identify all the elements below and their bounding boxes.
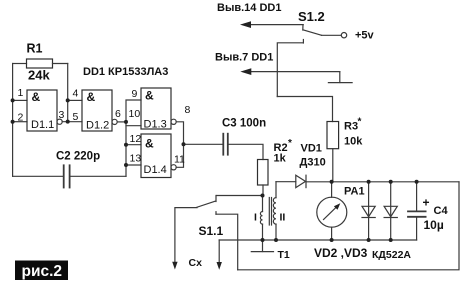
wire: S1.1 common to probe arrow [175, 208, 197, 263]
gate D1.4 [141, 134, 171, 178]
svg-text:4: 4 [73, 88, 79, 100]
diode VD3 [390, 182, 392, 240]
switch S1.2 arm [303, 30, 322, 36]
svg-text:24k: 24k [28, 68, 50, 83]
wire: pin 10 [126, 125, 141, 127]
svg-text:*: * [358, 117, 362, 128]
svg-text:D1.2: D1.2 [86, 120, 109, 132]
svg-text:+5v: +5v [355, 30, 375, 42]
svg-text:D1.4: D1.4 [144, 164, 167, 176]
junction node: C4 top [415, 180, 419, 184]
junction node: R3 / PA1 top rail [330, 180, 334, 184]
figure label ris.2 [15, 261, 68, 281]
capacitor C3 [222, 134, 224, 155]
wire: S1.1 top line to transformer [216, 195, 262, 197]
svg-text:DD1 КР1533ЛА3: DD1 КР1533ЛА3 [83, 66, 168, 78]
svg-text:5: 5 [73, 111, 79, 123]
svg-text:R1: R1 [27, 42, 43, 56]
transformer T1 core [268, 198, 270, 226]
svg-text:C3 100n: C3 100n [222, 118, 266, 130]
chassis symbol T1 [262, 240, 264, 252]
wire: Vyv.14 line to S1.2 [249, 24, 303, 26]
wire: D1.3 output to junction [176, 122, 183, 145]
resistor R1 [27, 59, 53, 68]
junction node: pin 13 [124, 163, 128, 167]
svg-text:II: II [280, 212, 286, 224]
switch S1.1 contact 2 tick [215, 212, 217, 215]
wire: inner bottom rail [219, 239, 416, 241]
arrow Vyv.14 [240, 21, 251, 75]
svg-text:рис.2: рис.2 [22, 263, 63, 280]
switch S1.1 contact 1 tick [215, 196, 217, 202]
svg-text:8: 8 [185, 104, 191, 116]
svg-text:11: 11 [174, 154, 185, 166]
ground symbol pin7 [339, 72, 341, 83]
svg-text:I: I [254, 212, 257, 224]
svg-text:S1.1: S1.1 [199, 224, 224, 238]
svg-text:C2 220p: C2 220p [56, 151, 100, 163]
svg-text:3: 3 [59, 109, 65, 121]
wire: S1.1 contact2 to bottom outer rail [216, 214, 238, 270]
svg-text:S1.2: S1.2 [298, 9, 325, 24]
svg-text:&: & [32, 90, 41, 104]
junction node: gate outputs to C3 [182, 142, 186, 146]
wire: pin 12 [126, 144, 141, 146]
junction node: PA1 bottom rail [330, 238, 334, 242]
junction node: pin 1 / left rail [11, 98, 15, 102]
svg-text:D1.3: D1.3 [144, 119, 167, 131]
svg-text:C4: C4 [434, 205, 449, 217]
capacitor C4 [416, 182, 418, 211]
wire: secondary to VD1 anode [276, 181, 296, 183]
svg-text:КД522А: КД522А [372, 249, 411, 261]
junction node: R2 / T1 primary top [261, 194, 265, 198]
ammeter PA1 [331, 182, 333, 198]
wire: D1.3/D1.4 input rail [126, 100, 141, 176]
svg-text:10: 10 [129, 108, 141, 120]
svg-text:13: 13 [130, 153, 142, 165]
terminal circle +5v [341, 33, 346, 38]
arrow Vyv.7 [240, 68, 251, 75]
wire: left rail from R1 left down to C2 [12, 64, 14, 177]
wire: R1 left horizontal [13, 63, 27, 65]
wire: D1.2 output to input rail [117, 121, 126, 123]
wire: Vyv.7 line [250, 71, 340, 73]
svg-text:R3: R3 [344, 121, 358, 133]
junction node: D1.2 output / input rail [124, 120, 128, 124]
resistor R2 [258, 160, 269, 186]
diode VD2 [368, 182, 370, 240]
junction node: VD3 top [389, 180, 393, 184]
wire: top rail VD1 to right frame [306, 181, 459, 183]
junction node: VD2 top [367, 180, 371, 184]
probe arrow 1 Cx [172, 262, 177, 270]
junction node: pin 12 [124, 143, 128, 147]
gate D1.2 [82, 90, 112, 131]
resistor R3 [327, 122, 339, 149]
wire: C2 right to input rail [71, 175, 126, 177]
switch S1.1 arm [197, 201, 215, 207]
junction node: T1 primary bottom [261, 238, 265, 242]
svg-text:&: & [145, 137, 154, 151]
junction node: VD2 bottom [367, 238, 371, 242]
capacitor C2 [63, 165, 65, 187]
wire: R3 bottom to rail [332, 149, 334, 182]
wire: pin 4 [68, 99, 82, 101]
wire: down to R3 [277, 97, 332, 122]
probe arrow 2 Cx [218, 240, 220, 263]
svg-text:1k: 1k [274, 153, 287, 165]
svg-text:D1.1: D1.1 [31, 119, 54, 131]
wire: junction to C3 [184, 143, 223, 145]
switch S1.2 contact 1 tick [302, 25, 304, 30]
wire: pin 2 [13, 121, 27, 123]
svg-text:&: & [87, 90, 96, 104]
svg-text:Выв.7 DD1: Выв.7 DD1 [215, 52, 273, 64]
wire: pin 13 [126, 164, 141, 166]
switch S1.2 contact 2 tick [302, 40, 304, 44]
svg-text:VD1: VD1 [301, 143, 322, 155]
svg-text:Cx: Cx [189, 257, 203, 269]
svg-text:+: + [423, 196, 430, 210]
svg-text:Д310: Д310 [300, 157, 326, 169]
junction node: T1 secondary bottom [274, 238, 278, 242]
svg-text:10k: 10k [344, 136, 363, 148]
wire: C3 right to R2 top [229, 144, 263, 159]
transformer T1 primary winding I [262, 196, 264, 212]
wire: S1.2 contact2 left and down [277, 43, 303, 97]
svg-text:Выв.14 DD1: Выв.14 DD1 [217, 2, 281, 14]
wire: bottom outer rail [238, 182, 459, 270]
diode VD1 [296, 175, 306, 187]
svg-text:12: 12 [130, 133, 142, 145]
wire: R2 bottom to node [262, 185, 264, 196]
wire: D1.1 output to D1.2 pin 5 [62, 121, 82, 123]
svg-text:6: 6 [115, 108, 121, 120]
junction node: pin 5 / D1.1 output [66, 120, 70, 124]
junction node: pin 2 / left rail [11, 120, 15, 124]
junction node: VD3 bottom [389, 238, 393, 242]
svg-text:VD2 ,VD3: VD2 ,VD3 [314, 246, 368, 260]
svg-text:PA1: PA1 [344, 186, 365, 198]
svg-text:1: 1 [18, 87, 24, 99]
svg-text:2: 2 [18, 112, 24, 124]
wire: pin 1 [13, 99, 27, 101]
svg-text:9: 9 [132, 88, 138, 100]
svg-text:10µ: 10µ [424, 218, 444, 232]
wire: D1.4 output to junction [176, 144, 183, 167]
svg-text:T1: T1 [278, 249, 290, 261]
junction node: pin 4 / right rail [66, 98, 70, 102]
gate D1.1 [27, 90, 57, 131]
wire: R1 right horizontal [53, 63, 68, 65]
transformer T1 secondary winding II [275, 182, 277, 198]
svg-text:*: * [288, 138, 292, 149]
wire: C2 left [13, 175, 63, 177]
gate D1.3 [141, 88, 171, 129]
svg-text:&: & [145, 89, 154, 103]
wire: right rail R1 to D1.2 inputs [67, 64, 69, 122]
wire: S1.2 pole to +5v terminal [322, 34, 342, 36]
